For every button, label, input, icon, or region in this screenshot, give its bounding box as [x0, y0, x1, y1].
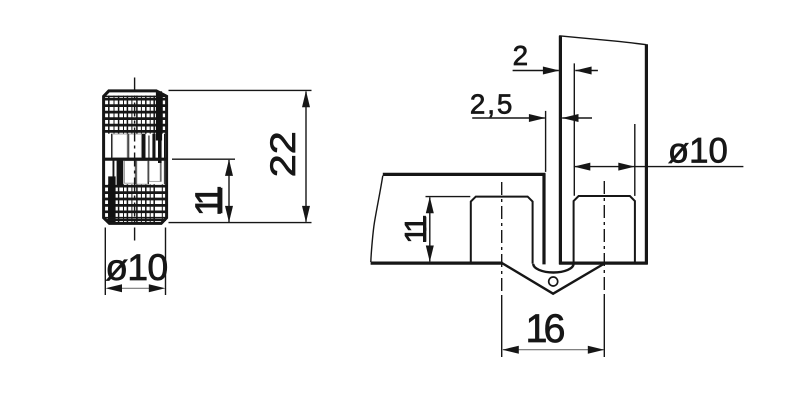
right bushing in vertical panel	[574, 196, 635, 264]
left bushing center line	[501, 182, 503, 296]
dimension o10 (right view) line	[574, 166, 744, 168]
svg-text:22: 22	[264, 131, 303, 177]
horizontal panel right edge	[542, 173, 545, 264]
dimension 2,5 arrow right	[562, 114, 579, 122]
dimension o10 (right view) arrow right	[618, 163, 635, 171]
horizontal panel left break line	[371, 176, 383, 262]
dimension 2,5 arrow left	[529, 114, 546, 122]
chamfer inner lines	[104, 95, 166, 97]
knurl black accent bar top-right	[156, 91, 162, 140]
pivot hole circle	[549, 277, 558, 286]
knurl grid horizontal rows top band	[105, 99, 167, 131]
right bushing center line	[603, 181, 605, 296]
dimension 16 arrow left	[502, 346, 519, 354]
vertical panel right edge	[645, 44, 648, 264]
horizontal panel bottom edge	[371, 262, 503, 265]
left bushing in horizontal panel	[471, 197, 533, 264]
knurl middle-band white base (erase verticals)	[105, 134, 166, 185]
svg-text:ø10: ø10	[668, 131, 728, 170]
dimension 22 line with arrows	[302, 91, 310, 223]
dimension o10 (left view) extension lines	[104, 228, 106, 296]
hinge barrel arc	[533, 264, 573, 273]
dimension 11 (left view) line with arrows	[225, 159, 233, 222]
dimension o10 (right view) extension line	[634, 124, 636, 196]
dimension o10 (right view) arrow left	[574, 163, 591, 171]
knurl row under bottom chamfer line	[105, 219, 167, 221]
horizontal panel top edge	[383, 173, 546, 176]
dimension 2,5 leader line right	[562, 117, 592, 119]
dimension 11 (left view) extension line at equator	[172, 158, 235, 160]
dimension 2 extension line	[573, 63, 575, 195]
svg-text:11: 11	[398, 217, 433, 244]
knurl middle-band window outlines	[113, 134, 161, 184]
vertical panel top break line	[559, 36, 646, 45]
svg-text:ø10: ø10	[105, 246, 167, 288]
vertical panel bottom edge	[559, 262, 648, 265]
dimension 2,5 extension line	[545, 111, 547, 172]
dimension 22/11 extension line bottom	[169, 222, 312, 224]
dimension 22 extension line top	[169, 89, 312, 91]
dimension 11 (right view) extension line	[426, 196, 471, 198]
dimension 2 leader line right	[575, 70, 598, 72]
dimension o10 (left view) connector line	[120, 287, 151, 289]
dimension 2 arrow right	[575, 67, 592, 75]
svg-text:16: 16	[526, 307, 565, 351]
knurl grid horizontal rows bottom band	[105, 186, 167, 212]
center line of bushing	[134, 78, 136, 241]
svg-text:2: 2	[513, 40, 528, 71]
vertical panel left edge	[559, 36, 562, 265]
dimension 16 arrow right	[588, 346, 605, 354]
dimension 2,5 leader line left	[472, 117, 545, 119]
dimension 2 leader line left	[513, 70, 559, 72]
knurl black accent bar bottom-left	[108, 176, 115, 222]
dimension 2 arrow left	[543, 67, 560, 75]
serif foot bar of 11 right	[423, 216, 426, 242]
dimension 11 (right view) line with arrows	[426, 197, 434, 262]
svg-text:2,5: 2,5	[470, 89, 514, 120]
bushing outline (octagon)	[104, 91, 167, 224]
serif foot bar of 1 in o10 right	[696, 160, 704, 163]
serif foot bar of 11 left	[219, 188, 222, 213]
knurl middle-band dark stripes below equator	[113, 161, 165, 187]
knurl grid vertical lines	[109, 96, 163, 223]
serif foot bar of 1 in 16	[530, 339, 542, 342]
dimension 16 line	[503, 349, 604, 351]
equator line	[103, 158, 167, 161]
hinge V body	[502, 263, 605, 294]
knurl middle-band dark stripes above equator	[111, 134, 165, 158]
serif foot bar of 1 in o10 left	[134, 277, 142, 280]
